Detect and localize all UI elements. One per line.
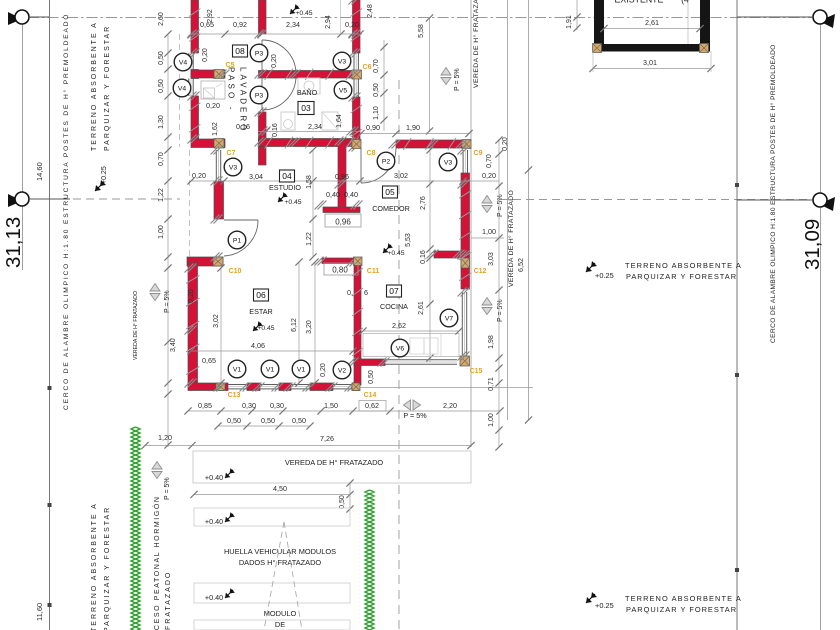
svg-text:0,50: 0,50 (368, 370, 375, 384)
column C11 block (354, 257, 363, 266)
right dim line 6,52 (528, 0, 530, 420)
level +0.45 comedor (383, 243, 393, 253)
svg-text:0,92: 0,92 (233, 20, 247, 29)
svg-text:C13: C13 (228, 392, 241, 399)
svg-text:PASO -: PASO - (227, 67, 236, 113)
svg-text:0,50: 0,50 (261, 416, 275, 425)
room 03 box (298, 102, 314, 115)
svg-text:5,53: 5,53 (405, 233, 412, 247)
terrain dashed line mid-right (500, 199, 816, 201)
svg-text:COCINA: COCINA (380, 302, 408, 311)
right +0.25 flag 1 (586, 261, 597, 272)
svg-text:0,96: 0,96 (335, 172, 349, 181)
room 07 box (387, 285, 402, 297)
level +0.45 top (290, 4, 300, 14)
driveway band 3 (194, 620, 350, 630)
svg-text:0,20: 0,20 (320, 363, 327, 377)
svg-text:FRATAZADO: FRATAZADO (165, 571, 172, 630)
svg-text:P = 5%: P = 5% (497, 299, 504, 322)
column C15 (460, 356, 470, 366)
column C6 junction (352, 70, 362, 79)
right fence post y185 (735, 183, 739, 187)
left +0.25 level flag (95, 180, 106, 191)
bano dim line (258, 131, 360, 133)
room 06 box (254, 289, 269, 301)
left slope arrow 2 (152, 462, 162, 479)
wall estar north jog (187, 257, 223, 266)
dim line 4,50 (194, 494, 350, 496)
window V3 estudio sill (215, 150, 217, 181)
column C9 junction (462, 140, 471, 149)
window V5 east sill (353, 79, 355, 97)
right lot dimension line (820, 10, 822, 630)
left fence post y505 (48, 503, 52, 507)
existing building east wall (700, 0, 710, 51)
svg-text:V4: V4 (178, 85, 187, 92)
svg-text:05: 05 (385, 187, 395, 197)
svg-text:3,02: 3,02 (394, 171, 408, 180)
svg-text:2,48: 2,48 (367, 4, 374, 18)
svg-text:31,13: 31,13 (2, 217, 25, 268)
svg-text:PARQUIZAR Y FORESTAR: PARQUIZAR Y FORESTAR (626, 272, 737, 281)
svg-text:+0.40: +0.40 (205, 517, 223, 526)
dim 0,62 (359, 401, 386, 412)
svg-text:ACCESO PEATONAL HORMIGÓN: ACCESO PEATONAL HORMIGÓN (152, 495, 161, 630)
axis bubble left mid (8, 194, 22, 207)
svg-text:P = 5%: P = 5% (454, 68, 461, 91)
window V7 sill (461, 292, 463, 356)
dashed line estudio west (189, 150, 191, 262)
svg-text:VEREDA DE H° FRATAZADO: VEREDA DE H° FRATAZADO (133, 291, 139, 360)
dim line 1,20/7,26 (145, 445, 471, 447)
room 04 box (280, 170, 295, 182)
dim 0,96 box (325, 214, 361, 227)
svg-text:P = 5%: P = 5% (403, 411, 427, 420)
svg-text:V2: V2 (338, 367, 347, 374)
svg-text:2,61: 2,61 (418, 301, 425, 315)
column C13 (216, 383, 225, 391)
svg-text:0,16: 0,16 (236, 122, 250, 131)
vereda east inner edge (470, 0, 472, 447)
estudio dim line (191, 180, 499, 182)
svg-text:0,90: 0,90 (366, 123, 380, 132)
svg-text:0,20: 0,20 (482, 171, 496, 180)
svg-text:1,00: 1,00 (488, 413, 495, 427)
svg-text:P2: P2 (382, 158, 391, 165)
svg-text:0,80: 0,80 (332, 266, 348, 275)
svg-text:CERCO DE ALAMBRE OLIMPICO H:1.: CERCO DE ALAMBRE OLIMPICO H:1.80 ESTRUCT… (62, 13, 70, 410)
svg-text:1,22: 1,22 (306, 232, 313, 246)
svg-text:6: 6 (364, 288, 368, 297)
svg-text:08: 08 (235, 46, 245, 56)
window V4 upper sill (188, 53, 190, 70)
right upper dim extension (383, 40, 385, 131)
svg-text:P = 5%: P = 5% (497, 194, 504, 217)
svg-text:1,98: 1,98 (488, 335, 495, 349)
svg-text:3,04: 3,04 (249, 172, 263, 181)
column C10 (213, 257, 223, 266)
axis bubble right top (819, 14, 835, 28)
svg-text:0,65: 0,65 (202, 356, 216, 365)
cocina dim line 2,62 (363, 330, 459, 332)
window V2 circle (333, 361, 351, 379)
window V1 b sill (260, 384, 279, 386)
window V1 circle b (261, 360, 279, 378)
svg-text:1,62: 1,62 (212, 122, 219, 136)
svg-text:0,50: 0,50 (373, 83, 380, 97)
svg-text:ESTUDIO: ESTUDIO (269, 183, 301, 192)
svg-text:1,90: 1,90 (406, 123, 420, 132)
interior dim line 3,02 estar (220, 268, 222, 383)
svg-text:5,58: 5,58 (418, 24, 425, 38)
left fence post y605 (48, 603, 52, 607)
svg-text:C12: C12 (474, 268, 487, 275)
wall bano north (259, 71, 360, 79)
wall east exterior upper (353, 0, 361, 53)
svg-text:0,85: 0,85 (198, 401, 212, 410)
wall hatch marks west (189, 9, 201, 17)
bottom dim row2 line (218, 425, 310, 427)
axis bubble right mid (819, 197, 835, 211)
axis bubble left top (8, 12, 22, 25)
level +0.45 estudio (278, 192, 288, 202)
svg-text:1,30: 1,30 (158, 115, 165, 129)
svg-text:V5: V5 (339, 87, 348, 94)
wall cocina west lower step (354, 365, 361, 385)
svg-text:3,40: 3,40 (170, 338, 177, 352)
wall cocina south red piece (354, 359, 385, 366)
wall junction tick marks (191, 49, 200, 58)
left slope arrow 1 (150, 284, 160, 301)
interior dim line 3,20 (314, 262, 316, 383)
wall west exterior below windows (191, 96, 199, 139)
column C14 block (352, 383, 360, 391)
window V4 circle upper (174, 53, 192, 71)
svg-text:+0.25: +0.25 (595, 601, 614, 610)
existing building west wall (594, 0, 604, 51)
window V3 circle comedor (439, 153, 457, 171)
wall west between V4 windows (191, 70, 199, 79)
svg-text:0,20: 0,20 (188, 289, 195, 303)
left dim extension line (167, 34, 169, 447)
svg-text:0,: 0, (347, 288, 353, 297)
svg-text:C11: C11 (367, 268, 380, 275)
svg-text:0,40: 0,40 (344, 190, 358, 199)
svg-text:0,70: 0,70 (373, 59, 380, 73)
svg-text:TERRENO ABSORBENTE A: TERRENO ABSORBENTE A (625, 261, 742, 270)
door P2 leaf and arc (360, 148, 362, 183)
door P1 circle (228, 231, 246, 249)
svg-text:07: 07 (389, 286, 399, 296)
interior dim line x313 (312, 150, 314, 257)
svg-text:0,50: 0,50 (227, 416, 241, 425)
bottom dim row1 line (188, 410, 500, 412)
svg-text:2,34: 2,34 (308, 122, 322, 131)
svg-text:C15: C15 (470, 368, 483, 375)
right +0.25 flag 2 (586, 592, 597, 603)
svg-text:VEREDA DE H° FRATAZADO: VEREDA DE H° FRATAZADO (472, 0, 480, 88)
svg-text:HUELLA VEHICULAR MODULOS: HUELLA VEHICULAR MODULOS (224, 547, 336, 556)
window V3 comedor sill (462, 150, 464, 173)
vereda east outer edge (507, 0, 509, 420)
svg-text:DADOS H° FRATAZADO: DADOS H° FRATAZADO (239, 558, 322, 567)
existing building south wall (594, 44, 710, 52)
svg-text:0,96: 0,96 (335, 218, 351, 227)
svg-text:0,50: 0,50 (292, 416, 306, 425)
svg-text:V7: V7 (445, 315, 454, 322)
bathroom shower fixture (322, 112, 338, 130)
svg-text:1,58: 1,58 (306, 175, 313, 189)
right dim vertical line (498, 140, 500, 447)
door P1 leaf and arc (224, 219, 258, 221)
svg-text:TERRENO ABSORBENTE A: TERRENO ABSORBENTE A (91, 502, 98, 630)
svg-text:V1: V1 (233, 366, 242, 373)
svg-text:1,50: 1,50 (324, 401, 338, 410)
svg-text:EXISTENTE: EXISTENTE (615, 0, 664, 5)
svg-text:C8: C8 (367, 150, 376, 157)
column C12 (461, 258, 470, 268)
svg-text:0,20: 0,20 (345, 20, 359, 29)
wall cocina east nib (434, 251, 460, 258)
svg-text:1,00: 1,00 (482, 227, 496, 236)
svg-text:1,20: 1,20 (158, 433, 172, 442)
wall pier V1bc (279, 383, 291, 391)
interior dim line x430 (429, 150, 431, 362)
svg-text:COMEDOR: COMEDOR (372, 204, 410, 213)
svg-text:0,50: 0,50 (158, 51, 165, 65)
svg-text:6,52: 6,52 (516, 258, 525, 272)
svg-text:P3: P3 (255, 50, 264, 57)
svg-text:V3: V3 (338, 58, 347, 65)
svg-text:1,91: 1,91 (566, 15, 573, 29)
wall bano west (259, 112, 267, 165)
svg-text:BAÑO: BAÑO (297, 88, 318, 97)
slope arrow right mid2 (482, 298, 492, 315)
wall lavadero south jog (191, 139, 225, 148)
window V3 circle top (333, 52, 351, 70)
wall estudio west (214, 181, 224, 219)
wall pier V1ab (247, 383, 260, 391)
column C8 block (352, 140, 361, 149)
window V1 a sill (228, 384, 247, 386)
svg-text:04: 04 (282, 171, 292, 181)
interior dim line 6,12 (298, 262, 300, 383)
wall comedor north (396, 140, 463, 148)
svg-text:C14: C14 (364, 392, 377, 399)
wall estar south east end (352, 383, 359, 391)
room 05 box (383, 186, 398, 198)
window V2 sill (333, 384, 352, 386)
window V6 circle (391, 339, 409, 357)
svg-text:0,70: 0,70 (486, 154, 493, 168)
svg-text:V4: V4 (179, 59, 188, 66)
wall comedor nib (323, 207, 360, 213)
svg-text:0,40: 0,40 (326, 190, 340, 199)
wall estar west (188, 262, 198, 384)
svg-text:11,60: 11,60 (35, 603, 44, 621)
svg-text:1,22: 1,22 (158, 188, 165, 202)
dashed centre line vertical (398, 80, 400, 630)
svg-text:2,92: 2,92 (207, 9, 214, 23)
top dim line (191, 33, 360, 35)
wall hatch marks interior (265, 69, 273, 81)
svg-text:0,30: 0,30 (270, 401, 284, 410)
svg-text:1,64: 1,64 (336, 114, 343, 128)
window V4 circle lower (173, 79, 191, 97)
ramp dashed triangle (264, 522, 284, 630)
kitchen counter fixtures (363, 334, 459, 357)
wall cocina north nib (322, 258, 357, 264)
slope arrow top right (441, 68, 451, 85)
dashed line left of building (179, 34, 181, 147)
wall east exterior below V5 (353, 97, 361, 147)
window V1 c sill (291, 384, 310, 386)
svg-text:2,20: 2,20 (443, 401, 457, 410)
svg-text:2,62: 2,62 (392, 321, 406, 330)
svg-text:C5: C5 (226, 62, 235, 69)
svg-text:V3: V3 (444, 159, 453, 166)
svg-text:0,20: 0,20 (206, 101, 220, 110)
svg-text:03: 03 (301, 103, 311, 113)
column C5 (214, 70, 224, 79)
svg-text:P1: P1 (233, 237, 242, 244)
column C7 (214, 139, 224, 149)
left lot dimension line (22, 10, 24, 270)
svg-text:2,76: 2,76 (420, 196, 427, 210)
wall estar south corner segment (188, 383, 228, 391)
door P3 lower arc (262, 76, 296, 110)
svg-text:V1: V1 (266, 366, 275, 373)
door P2 circle (377, 152, 395, 170)
left fence post y388 (48, 386, 52, 390)
svg-text:V1: V1 (297, 366, 306, 373)
svg-text:V6: V6 (396, 345, 405, 352)
svg-text:31,09: 31,09 (801, 219, 824, 270)
window V5 circle (334, 81, 352, 99)
wall bano south / estudio north (259, 139, 361, 147)
svg-text:P = 5%: P = 5% (164, 477, 171, 500)
wall east comedor-cocina (461, 173, 470, 289)
right lot fence line (736, 0, 738, 630)
window V3 east sill (353, 53, 355, 70)
svg-text:TERRENO ABSORBENTE A: TERRENO ABSORBENTE A (91, 21, 98, 151)
svg-text:06: 06 (256, 290, 266, 300)
svg-text:2,94: 2,94 (325, 15, 332, 29)
svg-text:3,20: 3,20 (306, 320, 313, 334)
svg-text:P = 5%: P = 5% (164, 290, 171, 313)
svg-text:0,70: 0,70 (158, 152, 165, 166)
estar dim line 4,06 (191, 350, 353, 352)
vereda south band (193, 451, 471, 483)
wall lavadero divider west piece (191, 70, 225, 78)
svg-text:0,16: 0,16 (420, 250, 427, 264)
dim line 3,01 (593, 68, 711, 70)
slope arrow right mid1 (482, 196, 492, 213)
svg-text:4,06: 4,06 (251, 341, 265, 350)
svg-text:TERRENO ABSORBENTE A: TERRENO ABSORBENTE A (625, 594, 742, 603)
terrain dash-dot line top (28, 17, 820, 19)
existing building column right (700, 44, 709, 53)
green hedge strip right (365, 490, 374, 630)
svg-text:2,34: 2,34 (286, 20, 300, 29)
svg-text:+0.25: +0.25 (101, 166, 108, 184)
svg-text:+0.45: +0.45 (257, 325, 274, 332)
svg-text:2,60: 2,60 (158, 12, 165, 26)
svg-text:+0.40: +0.40 (205, 593, 223, 602)
window V1 circle a (228, 360, 246, 378)
svg-text:C6: C6 (363, 64, 372, 71)
svg-text:1,00: 1,00 (158, 225, 165, 239)
svg-text:CERCO DE ALAMBRE OLIMPICO H:1.: CERCO DE ALAMBRE OLIMPICO H:1.80 ESTRUCT… (769, 44, 777, 343)
wall cocina west (354, 259, 361, 365)
svg-text:DE: DE (275, 620, 285, 629)
svg-text:+0.25: +0.25 (595, 271, 614, 280)
window cocina counter sill (385, 359, 457, 361)
svg-text:+0.45: +0.45 (387, 250, 404, 257)
svg-text:3,01: 3,01 (643, 58, 657, 67)
bathroom wc fixture (281, 112, 295, 130)
svg-text:VEREDA DE H° FRATAZADO: VEREDA DE H° FRATAZADO (507, 190, 515, 287)
dim line 2,61 (604, 28, 700, 30)
wall west exterior upper (191, 0, 199, 53)
existing building column left (593, 44, 602, 53)
svg-text:VEREDA DE H° FRATAZADO: VEREDA DE H° FRATAZADO (285, 458, 384, 467)
svg-text:0,20: 0,20 (271, 54, 278, 68)
svg-text:7,26: 7,26 (320, 434, 334, 443)
door P3 upper arc (262, 40, 296, 74)
svg-text:+0.45: +0.45 (295, 10, 312, 17)
door P3 circle upper (250, 44, 268, 62)
door P3 circle lower (250, 86, 268, 104)
right fence post y570 (735, 568, 739, 572)
driveway band 2 (194, 583, 350, 603)
svg-text:0,50: 0,50 (158, 79, 165, 93)
green hedge strip left (131, 427, 140, 630)
slope arrow bottom (404, 400, 421, 410)
wall room08 east upper (259, 0, 267, 34)
right fence post y375 (735, 373, 739, 377)
svg-text:6,12: 6,12 (291, 318, 298, 332)
svg-text:+0.40: +0.40 (205, 473, 223, 482)
svg-text:4,50: 4,50 (273, 484, 287, 493)
svg-text:0,20: 0,20 (502, 137, 509, 151)
svg-text:C9: C9 (474, 150, 483, 157)
svg-text:0,50: 0,50 (339, 495, 346, 509)
dim 0,80 box (324, 263, 358, 275)
svg-text:PARQUIZAR Y FORESTAR: PARQUIZAR Y FORESTAR (104, 506, 111, 630)
left lot fence line (49, 0, 51, 630)
svg-text:0,16: 0,16 (272, 123, 279, 137)
terrain dashed line mid-left (60, 198, 180, 200)
svg-text:C7: C7 (227, 150, 236, 157)
svg-text:PARQUIZAR Y FORESTAR: PARQUIZAR Y FORESTAR (104, 25, 111, 151)
wall hatch marks east (351, 9, 363, 17)
wall estar south long pier (310, 383, 333, 391)
bathroom sink fixture (298, 78, 320, 94)
svg-text:0,62: 0,62 (365, 401, 379, 410)
right dim horiz line 1,00 (471, 237, 504, 239)
svg-text:PARQUIZAR Y FORESTAR: PARQUIZAR Y FORESTAR (626, 605, 737, 614)
svg-text:V3: V3 (229, 164, 238, 171)
svg-text:+0.45: +0.45 (284, 199, 301, 206)
svg-text:2,61: 2,61 (645, 18, 659, 27)
svg-text:P3: P3 (255, 92, 264, 99)
level +0.45 estar (253, 321, 263, 331)
window V4 lower sill (188, 79, 190, 97)
svg-text:0,71: 0,71 (488, 377, 495, 391)
room 08 box (233, 45, 248, 57)
window V7 circle (440, 309, 458, 327)
